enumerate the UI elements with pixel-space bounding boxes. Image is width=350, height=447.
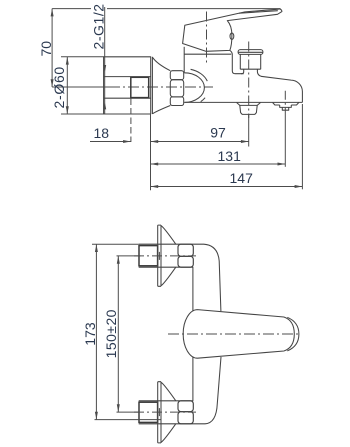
aerator flange (trapezoid band) [237,103,261,106]
top flange plate [158,225,161,286]
extension 150 bottom [117,411,140,413]
knob sides [240,54,260,69]
arrow G1/2 upper (down) [103,65,106,73]
svg-text:173: 173 [82,322,98,346]
svg-text:2-G1/2: 2-G1/2 [90,3,106,49]
svg-text:131: 131 [218,148,242,164]
body left edge [183,47,185,73]
extension line top (70 dim, handle tip level) [52,8,280,10]
lever tip inner line [239,11,278,14]
body/spout bottom line [184,101,302,103]
lever plan outline [183,310,294,359]
extension 173 top [92,243,139,245]
recess step tier2 [282,107,288,110]
eccentric body square (thick) [131,77,149,97]
shower outlet recess [273,103,299,106]
arrow G1/2 lower (up) [103,102,106,110]
dimension 97 [150,141,248,143]
wall flange rectangle [104,57,151,114]
extension spout end [301,104,303,189]
bottom trumpet bell curves [161,382,176,442]
spout top edge [261,76,303,102]
handle indicator ellipse [230,33,234,39]
lever centerline [168,333,301,335]
inlet boss semicircle [184,73,204,103]
hex nut (side view, three facet bands) [170,71,183,80]
body bar left edges [192,267,194,401]
bottom union lower row: pipe/nut/body bottom edge [139,357,221,424]
arrow 70 top [51,9,54,17]
dimension 147 [150,186,302,188]
dimension 150+-20 line [117,256,119,412]
dimension 70 line [51,9,53,87]
top union upper row: pipe/nut/body top edge [139,244,221,311]
svg-text:70: 70 [38,41,54,57]
dimension 173 line [95,244,97,419]
handle axis dash-dot [206,12,208,64]
svg-text:18: 18 [94,125,110,141]
diverter knob cap [238,50,263,55]
top hex nut (two facet bands) [178,244,193,256]
svg-text:147: 147 [230,170,254,186]
bottom union upper row: pipe/nut top edge [139,400,194,402]
extension aerator axis [248,115,250,147]
extension O60 bottom [61,113,104,115]
leader 2-G1/2 vertical [104,7,106,114]
top trumpet bell curves [161,226,176,286]
extension line centerline left (70 dim bottom) [52,86,109,88]
boss blend arc lower [201,98,205,102]
bottom flange plate [158,382,161,443]
trumpet cover top curve [152,57,170,70]
extension O60 top [61,56,104,58]
extension recess axis [284,113,286,167]
bottom pipe centerline [134,411,196,413]
inlet pipe lines [104,77,151,99]
neck right edge with shoulder [230,50,244,73]
handle outline [183,9,282,51]
svg-text:2-Ø60: 2-Ø60 [51,66,67,108]
recess step tier1 [280,105,292,107]
top inlet eccentric body (thick) [139,246,158,266]
arrow O60 top [66,57,69,65]
dimension 18 [90,141,131,143]
svg-text:97: 97 [210,125,226,141]
bottom center tick [158,408,160,416]
dimension 131 [150,163,285,165]
boss blend arc upper [191,69,208,81]
top center tick [158,252,160,260]
arrow 70 bottom [51,79,54,87]
knob cap inner line [238,51,263,53]
top pipe centerline [134,255,196,257]
extension wall face [150,114,152,190]
aerator cup with beveled bottom [240,105,257,114]
extension 173 bottom [95,419,161,421]
lever end cap arc [287,317,299,351]
bottom hex nut (two facet bands) [178,401,193,412]
recess axis dash-dot [284,91,286,113]
diverter axis dash-dot [248,42,250,119]
svg-text:150±20: 150±20 [103,309,119,358]
dimension 2-O60 line [66,57,68,114]
trumpet cover bottom curve [152,106,170,114]
arrow O60 bottom [66,106,69,114]
top union lower row: pipe/nut bottom edge [139,266,194,268]
knob stem [241,69,261,76]
neck joint line [184,53,231,55]
bottom inlet eccentric body (thick) [139,402,158,422]
extension 150 top [117,255,141,257]
extension 18 (dashed) [130,99,132,143]
centerline inlet axis (dash-dot) [109,86,213,88]
flange face second line [151,57,153,114]
